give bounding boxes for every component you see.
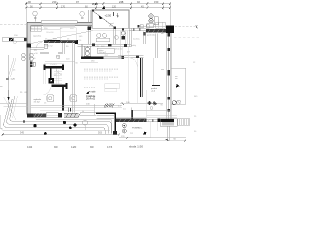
- node shaft box: [44, 44, 48, 48]
- stair vertical web upper: [50, 68, 52, 78]
- stair treads: [44, 70, 62, 84]
- window band top wall: [41, 21, 77, 24]
- washer dryer stack: [84, 46, 91, 56]
- wall partition y56 right wing: [118, 56, 144, 58]
- wall dark vertical below stair: [62, 87, 64, 110]
- window bottom wall: [46, 113, 58, 117]
- svg-text:102: 102: [27, 145, 32, 149]
- svg-text:w 90: w 90: [34, 53, 38, 55]
- column bubble left: [47, 95, 54, 102]
- node extension ticks top: [25, 3, 171, 9]
- node balcony dark hatch: [9, 38, 13, 41]
- node terrace dot 3: [63, 121, 66, 124]
- wire bottom dim line A: [3, 134, 120, 136]
- svg-text:+2,50: +2,50: [105, 13, 112, 17]
- node right mid ticks: [161, 33, 164, 69]
- svg-text:29,6 m2: 29,6 m2: [115, 49, 123, 51]
- svg-text:90: 90: [54, 145, 58, 149]
- column bubble right: [70, 95, 77, 102]
- furniture table rects: [105, 84, 120, 88]
- room label box salon: [97, 48, 114, 53]
- wire dashed line right top: [175, 26, 196, 28]
- node wall knot bottom-left corner: [27, 113, 33, 117]
- wire bottom dim line B: [119, 137, 186, 139]
- wall stub right bottom: [167, 126, 169, 141]
- ramp arrowhead: [99, 15, 103, 19]
- wire terrace top line left: [0, 103, 28, 105]
- node extension verticals top: [41, 3, 164, 11]
- ramp diagonal: [93, 11, 115, 27]
- node knot bottom of corner: [113, 131, 117, 134]
- node extension line right: [169, 3, 171, 29]
- wall vertical interior x82: [81, 44, 83, 56]
- svg-text:13,1 m2: 13,1 m2: [45, 46, 53, 48]
- wire dim text row top: [28, 0, 159, 8]
- node mark 1.25: [6, 78, 9, 80]
- wire line y62: [80, 61, 98, 63]
- pump circles bottom: [122, 124, 126, 128]
- wall dark band salon north: [81, 56, 103, 59]
- svg-text:kuchnia: kuchnia: [133, 39, 140, 41]
- node wc circles east: [172, 101, 176, 105]
- window bottom right wing: [146, 119, 160, 122]
- stair wall poche top bar: [43, 66, 64, 68]
- svg-text:29,6 m2: 29,6 m2: [99, 52, 107, 54]
- node grid bubble B: [80, 12, 85, 17]
- wall partition vertical x63: [62, 43, 64, 54]
- svg-text:garderoba: garderoba: [147, 33, 157, 36]
- wall left edge right wing: [143, 31, 145, 44]
- wire light lines above stair: [45, 61, 75, 63]
- node room cursor arrow: [86, 91, 90, 94]
- wire stair upper edge: [44, 63, 64, 65]
- wire verticals below right wing: [150, 122, 152, 138]
- right wing window band top: [129, 28, 146, 31]
- text left small cluster: [20, 92, 42, 103]
- svg-text:125: 125: [34, 50, 37, 52]
- wire line y104 right: [120, 103, 163, 105]
- stair end cap left: [43, 64, 45, 70]
- furniture bed top-left room: [60, 28, 76, 40]
- wire bottom dim line C: [0, 140, 186, 142]
- wire terrace edge right of corner: [97, 116, 116, 119]
- node corner poche top right: [166, 26, 174, 33]
- svg-text:120: 120: [112, 5, 117, 8]
- wire line y110 right: [132, 110, 172, 112]
- wall hatched bottom segment: [64, 113, 79, 117]
- svg-text:1,65: 1,65: [79, 36, 83, 38]
- wall lines y45 center: [77, 44, 131, 46]
- wall top right wing dark band: [146, 29, 174, 33]
- terrace nested lines: [4, 96, 112, 134]
- node step block bottom right: [162, 122, 174, 126]
- wall dark vertical interior x141: [140, 58, 143, 97]
- svg-text:sypialnia: sypialnia: [33, 36, 42, 38]
- stair end cap right: [62, 64, 64, 70]
- wall right exterior bundle: [166, 33, 168, 119]
- svg-text:2,0: 2,0: [79, 40, 82, 42]
- ramp rectangle outline: [92, 10, 129, 28]
- svg-text:503: 503: [98, 132, 103, 135]
- wall partition horizontal y53: [40, 52, 62, 54]
- svg-text:90: 90: [82, 111, 84, 113]
- node wall knot left middle: [27, 44, 31, 48]
- wire top dimension line 2: [25, 7, 170, 9]
- node right wall dark segs: [168, 33, 170, 111]
- svg-text:pokój: pokój: [131, 45, 136, 47]
- wall closet verticals: [155, 34, 157, 58]
- svg-text:5%: 5%: [109, 25, 112, 27]
- svg-text:90: 90: [90, 145, 94, 149]
- node grid bubble A: [33, 11, 38, 16]
- svg-text:7,5 m2: 7,5 m2: [34, 102, 41, 104]
- wire lines y105 center: [31, 104, 122, 106]
- svg-text:230: 230: [52, 0, 57, 4]
- window band salon north: [103, 57, 121, 59]
- wire dashed line y37 right: [174, 36, 200, 38]
- threshold hatch marks: [104, 103, 114, 107]
- svg-text:248: 248: [119, 0, 124, 4]
- wall partition vertical x73: [72, 43, 74, 112]
- node terrace dot 1: [33, 124, 36, 127]
- svg-text:545: 545: [20, 132, 25, 135]
- closet grid top-left: [31, 26, 41, 31]
- wire interior lines below top wall: [28, 29, 60, 31]
- wall dark corner terrace: [96, 113, 115, 133]
- svg-text:c.o.: c.o.: [130, 133, 134, 135]
- boiler cluster: [149, 14, 153, 18]
- balcony planter left: [2, 38, 26, 41]
- wire vertical x95: [94, 104, 96, 115]
- node dark seg bottom wall: [58, 113, 62, 117]
- east terrace outline: [171, 68, 185, 104]
- svg-text:170: 170: [61, 5, 66, 8]
- svg-text:180x200: 180x200: [46, 32, 55, 34]
- wire vertical x146: [146, 90, 148, 118]
- node terrace dot 4: [69, 127, 72, 130]
- wire top dimension line 1: [25, 3, 170, 5]
- floor hatch rows salon: [84, 69, 118, 87]
- wire vertical light x137: [137, 58, 139, 103]
- svg-text:małe: małe: [91, 92, 97, 94]
- node terrace dot 2: [44, 132, 47, 135]
- svg-text:skala 1:50: skala 1:50: [129, 145, 143, 149]
- node column bubble bottom: [83, 121, 88, 126]
- fixtures right of wall: [30, 54, 33, 57]
- shrub symbols: [147, 101, 157, 106]
- node dark seg window right: [122, 56, 125, 59]
- wire leader to 1.25: [8, 58, 14, 78]
- ramp left wall: [88, 10, 90, 28]
- wire east terrace edge lines: [146, 116, 177, 118]
- wall vertical x132 dark: [130, 108, 132, 119]
- node extension line left: [25, 2, 27, 22]
- wall left exterior: [27, 22, 30, 114]
- wall bottom left building: [33, 113, 46, 117]
- node counter dark marks: [30, 62, 32, 64]
- node podloga mark: [152, 84, 160, 86]
- node dark tick y44: [92, 43, 95, 46]
- svg-text:17x18,5: 17x18,5: [50, 64, 57, 66]
- text bottom row: [27, 145, 143, 150]
- ramp down arrow symbol: [117, 13, 119, 17]
- wire dashed setback line left: [0, 23, 26, 25]
- door arc stair: [56, 68, 62, 74]
- wall vertical light x120: [120, 31, 122, 57]
- striped pad right: [178, 119, 190, 125]
- node wall knot band right end: [74, 40, 77, 44]
- wall interior dark band (bedroom south): [44, 41, 77, 44]
- svg-text:150: 150: [154, 0, 159, 4]
- door arc hall: [37, 42, 43, 47]
- svg-text:173: 173: [107, 145, 112, 149]
- svg-text:POMPA C.: POMPA C.: [132, 127, 143, 130]
- svg-text:2,50: 2,50: [92, 2, 98, 6]
- wall bottom right wing dark band: [116, 119, 146, 122]
- wire lines y27 right: [140, 26, 172, 28]
- door symbols right of ramp: [137, 25, 139, 28]
- node stair black square: [48, 78, 53, 83]
- stair lower bar: [51, 84, 67, 87]
- node left dim arrow: [7, 97, 9, 101]
- fixtures left of wall: [22, 54, 25, 57]
- left vertical dimension line: [8, 55, 10, 103]
- node dark symbol pompa: [143, 131, 146, 134]
- node cursor arrow east: [176, 84, 180, 88]
- node corner poche bottom right: [158, 119, 175, 123]
- node floor drain circle: [56, 55, 60, 59]
- fireplace symbol: [121, 31, 125, 35]
- window bottom wall 2: [80, 113, 96, 115]
- svg-text:120: 120: [71, 145, 76, 149]
- stair lower end cap: [65, 83, 67, 89]
- text right edge ticks: [193, 62, 198, 133]
- wall top exterior (left building): [27, 22, 92, 26]
- text bedroom label: [33, 36, 70, 61]
- wall partition horizontal hall: [30, 48, 44, 50]
- wire left edge ticks: [0, 86, 3, 128]
- wire vertical x128: [127, 47, 129, 103]
- svg-text:26,4 m2: 26,4 m2: [86, 98, 96, 101]
- node level marker top: [102, 6, 106, 9]
- bath cluster top center: [97, 33, 101, 37]
- node terrace dot 5: [74, 124, 77, 127]
- wire terrace slope diagonals: [13, 96, 18, 118]
- wire leader diagonal long: [31, 31, 94, 44]
- wall vertical x114: [114, 28, 116, 44]
